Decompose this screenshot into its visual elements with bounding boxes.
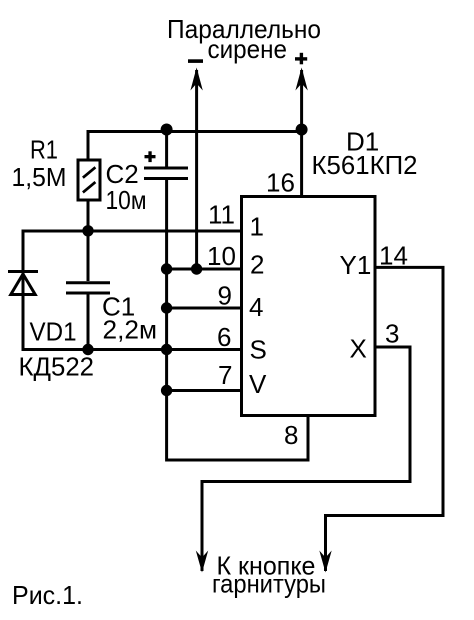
svg-text:7: 7 [218, 360, 232, 390]
svg-text:Y1: Y1 [340, 250, 372, 280]
svg-text:X: X [350, 334, 367, 364]
svg-text:2,2м: 2,2м [103, 315, 158, 345]
svg-text:1,5М: 1,5М [12, 162, 67, 192]
svg-text:14: 14 [379, 241, 408, 271]
svg-text:10м: 10м [106, 185, 147, 215]
svg-text:4: 4 [249, 292, 263, 322]
svg-text:R1: R1 [30, 135, 58, 165]
svg-text:10: 10 [207, 241, 236, 271]
svg-text:VD1: VD1 [30, 317, 77, 347]
svg-text:К561КП2: К561КП2 [312, 150, 418, 180]
svg-text:9: 9 [218, 281, 232, 311]
svg-text:3: 3 [385, 319, 399, 349]
svg-text:6: 6 [217, 322, 231, 352]
svg-text:11: 11 [208, 200, 235, 230]
svg-text:КД522: КД522 [19, 352, 95, 382]
svg-text:2: 2 [250, 250, 264, 280]
svg-text:Рис.1.: Рис.1. [12, 580, 83, 610]
svg-text:16: 16 [266, 168, 295, 198]
svg-text:сирене: сирене [208, 34, 288, 64]
svg-text:V: V [249, 369, 267, 399]
svg-text:8: 8 [284, 420, 298, 450]
svg-text:S: S [250, 335, 267, 365]
svg-text:гарнитуры: гарнитуры [212, 569, 326, 599]
svg-text:1: 1 [250, 212, 264, 242]
